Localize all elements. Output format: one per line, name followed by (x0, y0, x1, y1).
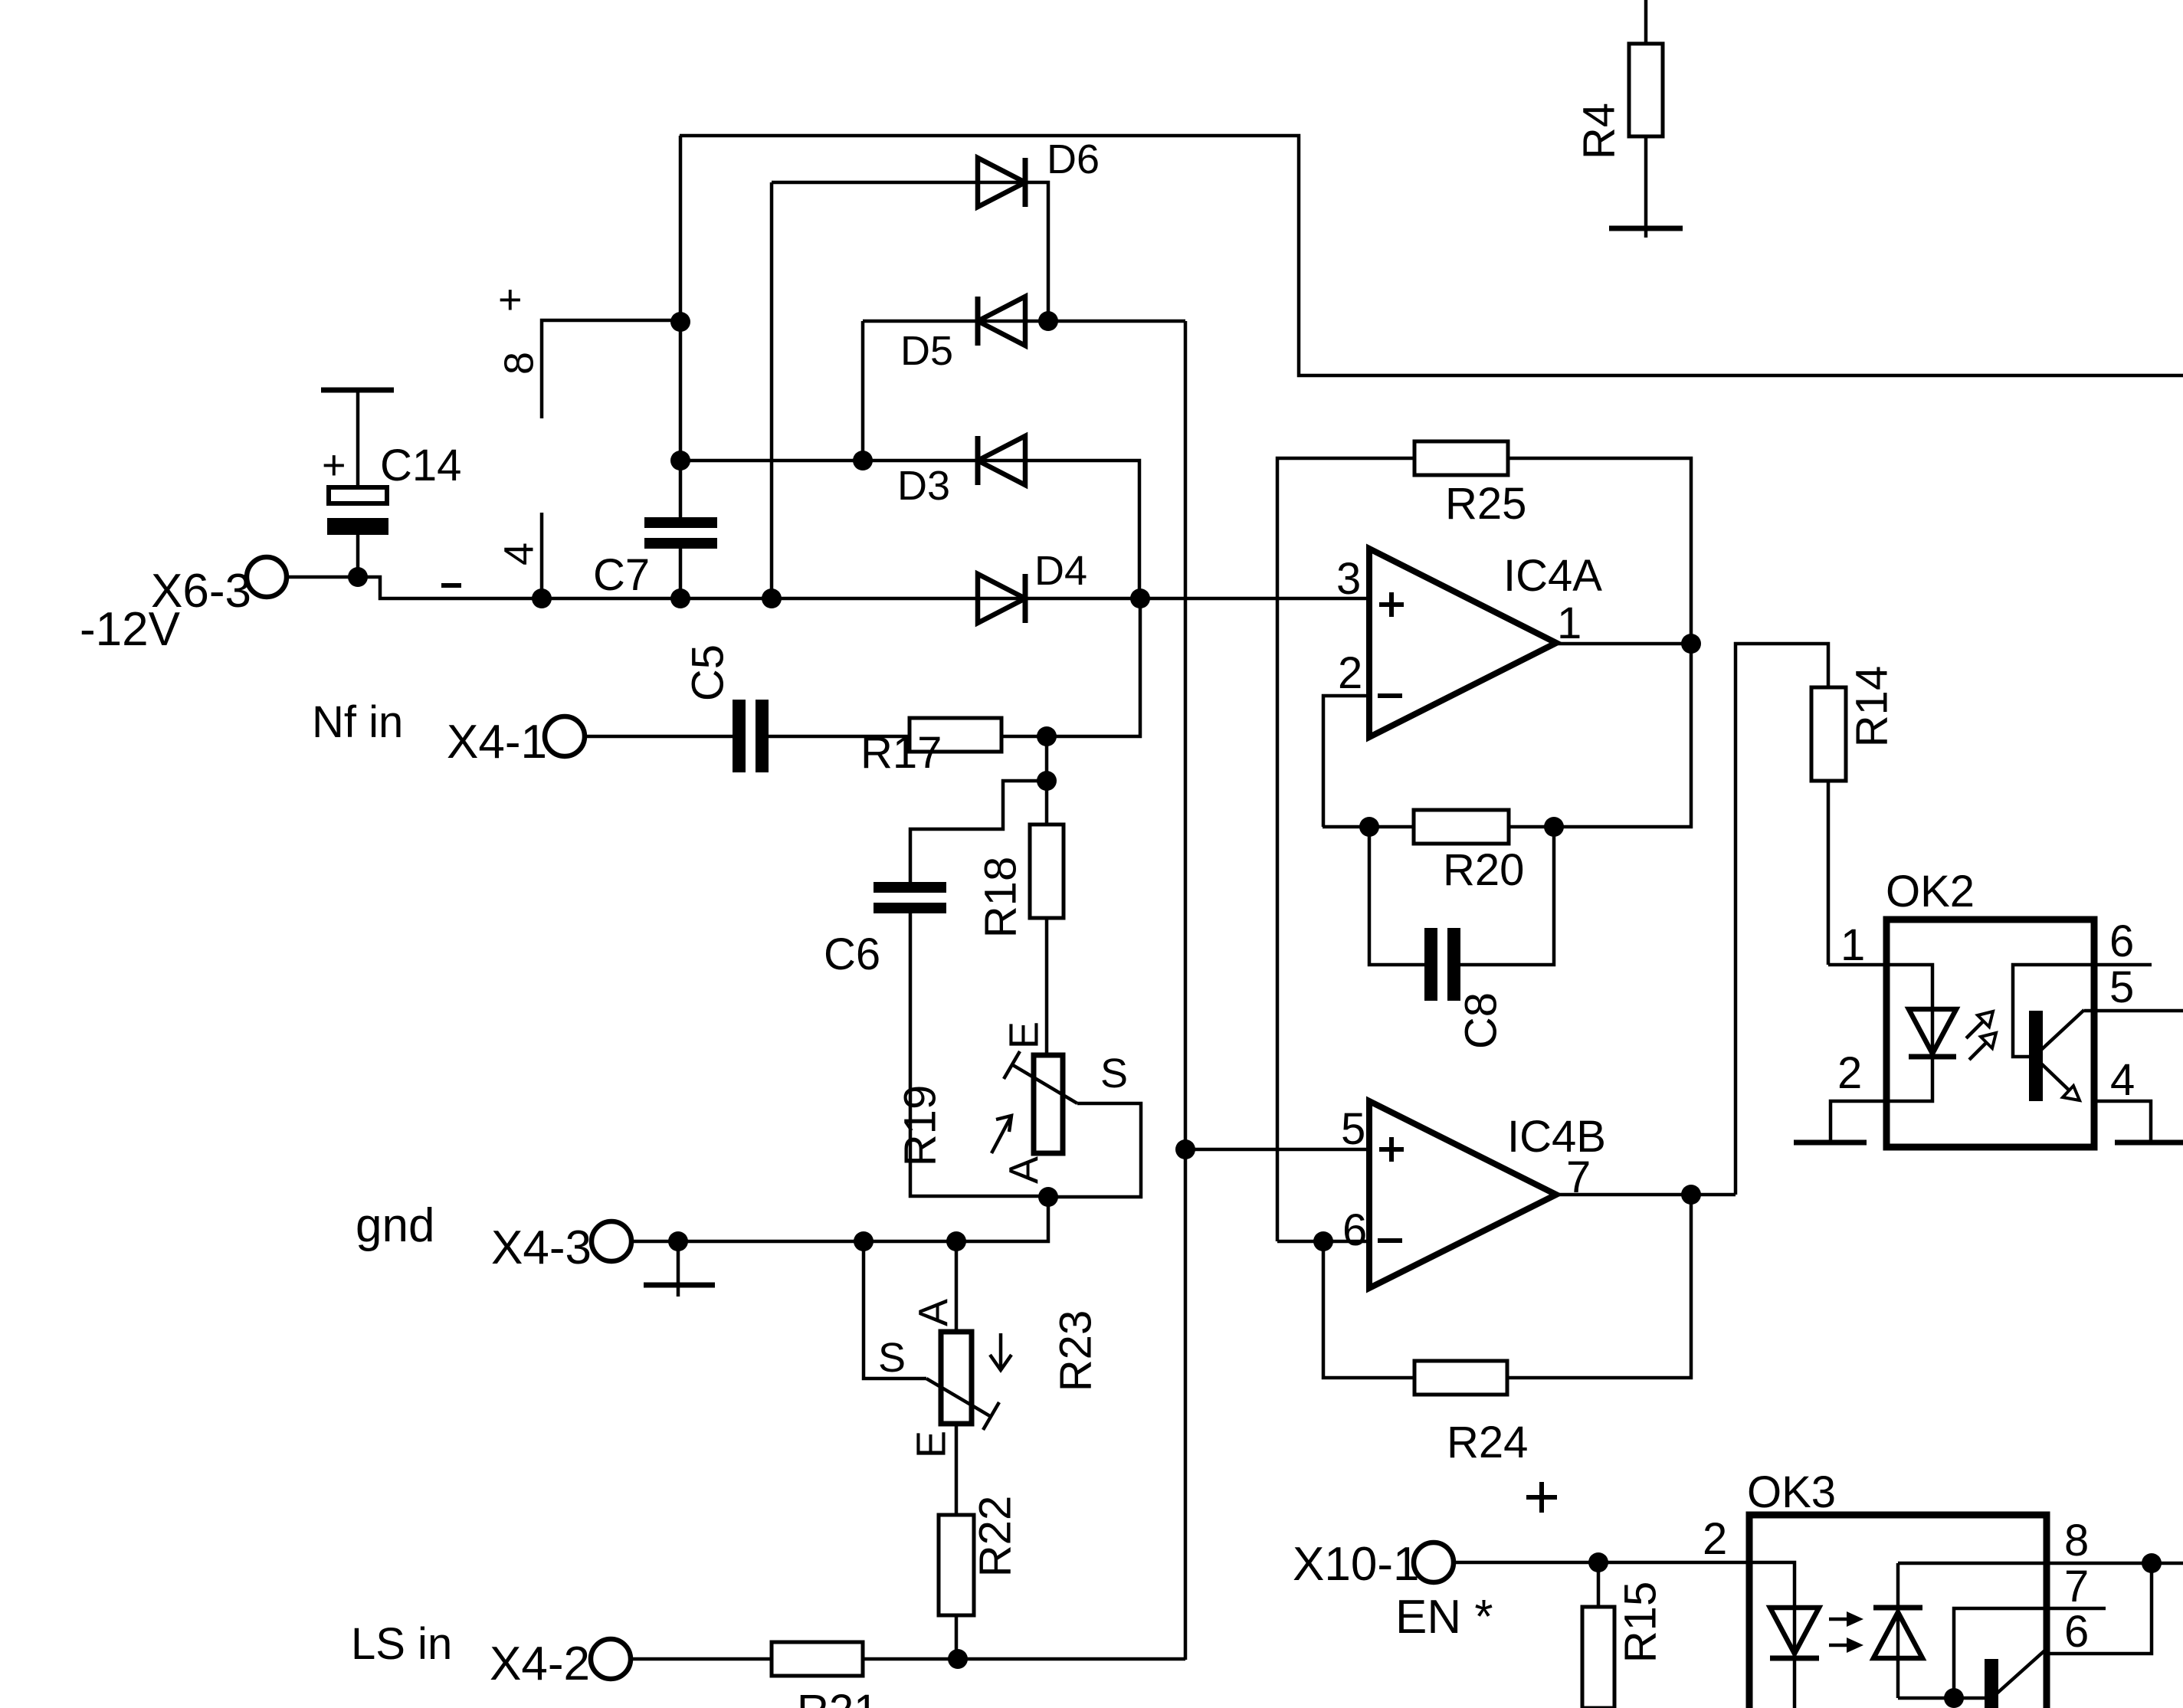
wire OK3 base row (1898, 1697, 1986, 1700)
svg-text:1: 1 (1840, 920, 1865, 970)
node junction D6/D5 (1038, 311, 1058, 331)
terminal X4-1 (545, 716, 585, 756)
node junction pot A / R19 / S / rail (1038, 1187, 1058, 1207)
wire IC4B output (1556, 1193, 1736, 1197)
diode D5 (975, 297, 981, 346)
resistor R24 (1414, 1361, 1507, 1395)
svg-text:R17: R17 (860, 728, 942, 778)
wire IC4A out down to R20 row (1323, 644, 1691, 827)
svg-text:-12V: -12V (80, 603, 181, 656)
wire S loop of upper pot (1048, 1103, 1141, 1197)
node junction R22/R21 (948, 1649, 968, 1669)
resistor R25 (1277, 458, 1414, 1241)
wire IC4A pin2 stub (1323, 696, 1369, 827)
svg-text:2: 2 (1837, 1048, 1862, 1098)
svg-text:8: 8 (2064, 1516, 2089, 1565)
svg-text:D4: D4 (1034, 548, 1087, 594)
svg-text:5: 5 (1341, 1104, 1365, 1154)
svg-text:E: E (1001, 1021, 1047, 1049)
wire OK2 pin5 (2084, 1009, 2183, 1013)
potentiometer R23 body (941, 1332, 972, 1424)
OK2 base wire from pin6 (2013, 965, 2094, 1057)
wire OK2 pin2 stub (1831, 1101, 1886, 1140)
svg-text:C8: C8 (1456, 992, 1506, 1049)
wire S loop of R23 (864, 1241, 926, 1379)
svg-text:C7: C7 (593, 550, 650, 600)
arrow direction marker upper pot (992, 1116, 1011, 1153)
svg-text:D6: D6 (1047, 136, 1100, 182)
svg-text:Nf in: Nf in (312, 697, 403, 747)
node junction S drop R23 (854, 1231, 874, 1251)
capacitor C14 electrolytic (356, 390, 360, 487)
svg-text:LS in: LS in (351, 1619, 452, 1669)
OK3 light arrows (1829, 1618, 1854, 1621)
svg-text:6: 6 (2064, 1607, 2089, 1657)
wire C6 loop from junction (910, 781, 1047, 882)
optocoupler OK3 box (1749, 1515, 2047, 1708)
capacitor C6 (874, 882, 946, 893)
resistor R15 (1597, 1562, 1601, 1607)
minus sign IC4A (1378, 693, 1402, 698)
svg-text:R23: R23 (1051, 1310, 1100, 1392)
svg-text:IC4A: IC4A (1503, 551, 1602, 601)
node junction D5 leg on D3 row (853, 451, 873, 470)
wire pot junction down to gnd rail corner (611, 1197, 1048, 1241)
svg-text:X4-1: X4-1 (447, 716, 547, 769)
svg-text:C6: C6 (824, 929, 880, 979)
svg-text:A: A (1001, 1156, 1047, 1184)
potentiometer R23 wiper diagonal (926, 1379, 990, 1416)
svg-text:+: + (498, 277, 523, 323)
wire OK3 pin6 to pin8 (2047, 1563, 2152, 1654)
wire top rail from C7 top to right corner (680, 136, 2183, 375)
node junction IC4B output (1681, 1185, 1701, 1205)
op-amp IC4B (1369, 1101, 1556, 1288)
resistor R22 (939, 1515, 974, 1615)
resistor R21 (631, 1657, 772, 1661)
node junction pin4 bracket on rail (532, 588, 552, 608)
terminal X10-1 (1414, 1542, 1454, 1582)
plus sign X10 (1526, 1495, 1557, 1500)
resistor R17 (769, 735, 910, 739)
svg-text:2: 2 (1703, 1514, 1727, 1564)
svg-text:A: A (910, 1299, 956, 1326)
svg-text:R25: R25 (1445, 479, 1526, 529)
capacitor C8 (1424, 928, 1437, 1001)
svg-text:C5: C5 (683, 644, 733, 701)
svg-text:8: 8 (496, 352, 542, 375)
wire IC4 power bracket plus pin8 (542, 320, 680, 418)
resistor R18 (1045, 781, 1049, 824)
svg-text:3: 3 (1336, 554, 1361, 604)
ground R4 (1609, 226, 1683, 231)
OK3 phototransistor base bar (1985, 1659, 1998, 1708)
wire IC4B pin6 row (1277, 1240, 1369, 1244)
node junction gnd symbol (668, 1231, 688, 1251)
node junction bracket top on C7 line (670, 312, 690, 332)
wire C8 loop right (1460, 827, 1554, 965)
diode D4 (978, 574, 1025, 623)
diode D3 (680, 459, 1025, 463)
wire R24 loop left (1323, 1241, 1414, 1378)
wire C7 vertical upper (679, 136, 683, 517)
svg-text:D3: D3 (897, 463, 950, 509)
terminal X4-3 (592, 1221, 631, 1261)
svg-text:R20: R20 (1443, 845, 1524, 895)
svg-text:6: 6 (2109, 916, 2134, 966)
potentiometer upper (E/S/A) body (1034, 1055, 1063, 1153)
capacitor C7 (644, 517, 717, 528)
svg-text:2: 2 (1338, 648, 1362, 698)
svg-text:S: S (1100, 1051, 1128, 1097)
wire D5 long drop to LS row (1184, 321, 1188, 1660)
svg-text:R24: R24 (1447, 1418, 1528, 1467)
arrow direction marker R23 (999, 1333, 1003, 1370)
wire OK2 pin6 stub (2094, 963, 2152, 967)
node junction R20 left (1359, 817, 1379, 837)
resistor R20 (1414, 810, 1509, 844)
svg-text:5: 5 (2109, 962, 2134, 1012)
OK2 light arrows (1966, 1017, 1988, 1038)
node junction R18 top (1037, 771, 1057, 791)
svg-text:X4-2: X4-2 (490, 1638, 590, 1690)
op-amp IC4A (1369, 549, 1556, 737)
node junction IC4A output (1681, 634, 1701, 654)
svg-text:R4: R4 (1574, 103, 1624, 159)
node junction pin6 (1313, 1231, 1333, 1251)
wire OK3 pin8 row (1898, 1562, 2183, 1565)
svg-text:IC4B: IC4B (1507, 1112, 1606, 1162)
wire R19 drop from C6 to pot junction (910, 913, 1048, 1196)
wire D4 junction down to R17 row (1047, 598, 1140, 736)
svg-text:gnd: gnd (356, 1199, 434, 1252)
node junction R15 top (1588, 1552, 1608, 1572)
node junction pin5 on D5 drop (1175, 1139, 1195, 1159)
wire IC4A output (1556, 642, 1691, 646)
potentiometer upper wiper diagonal (1013, 1065, 1077, 1103)
terminal X4-2 (591, 1639, 631, 1679)
node junction C7 on rail (670, 588, 690, 608)
svg-text:R22: R22 (970, 1496, 1020, 1577)
label minus near bracket (441, 583, 461, 588)
svg-text:OK3: OK3 (1747, 1467, 1836, 1517)
node junction X6-3/C14 (348, 567, 368, 587)
wire OK2 pin1 (1828, 963, 1886, 967)
svg-text:7: 7 (2064, 1562, 2089, 1611)
node junction pin8 (2142, 1553, 2162, 1573)
terminal X6-3 (247, 557, 287, 597)
node junction R17 output (1037, 726, 1057, 746)
diode D6 (772, 181, 1025, 185)
node junction D6 leg on rail (762, 588, 782, 608)
node junction OK3 base row (1944, 1688, 1964, 1708)
wire R23 E terminal to R22 (955, 1424, 959, 1515)
svg-text:D5: D5 (900, 328, 953, 374)
node junction D4 cathode (1130, 588, 1150, 608)
minus sign IC4B (1378, 1238, 1402, 1243)
svg-text:S: S (878, 1335, 906, 1381)
OK2 emitter diagonal with arrow (2041, 1064, 2078, 1099)
resistor R4 (1644, 0, 1648, 44)
svg-text:E: E (908, 1431, 954, 1458)
resistor R14 (1811, 687, 1846, 781)
svg-text:6: 6 (1342, 1205, 1367, 1255)
svg-text:C14: C14 (380, 441, 461, 490)
wire output up to R14 (1736, 644, 1828, 1195)
wire OK3 pin7 (1954, 1608, 2106, 1698)
OK3 LED chain (1749, 1562, 1795, 1658)
svg-text:R19: R19 (895, 1085, 945, 1166)
node junction R20 right (1544, 817, 1564, 837)
svg-text:1: 1 (1557, 598, 1582, 648)
svg-text:EN *: EN * (1395, 1591, 1493, 1644)
wire R17 junction to lower junction (1045, 736, 1049, 781)
capacitor C5 (585, 735, 733, 739)
wire X10-1 to OK3 pin2 (1454, 1561, 1749, 1565)
plus sign IC4B (1379, 1147, 1404, 1152)
svg-text:R18: R18 (975, 857, 1025, 938)
wire -12V rail from X6-3 step to IC4A pin3 (286, 577, 1369, 598)
OK3 reverse diode (1896, 1563, 1900, 1698)
ground symbol X4-3 (677, 1241, 680, 1297)
svg-text:4: 4 (496, 543, 542, 566)
OK2 collector diagonal (2041, 1010, 2084, 1050)
svg-text:R21: R21 (797, 1686, 878, 1708)
svg-text:4: 4 (2110, 1055, 2135, 1105)
svg-text:R14: R14 (1847, 666, 1896, 747)
wire R23 A terminal (955, 1241, 959, 1332)
node junction R23 A (946, 1231, 966, 1251)
plus sign IC4A (1379, 602, 1404, 607)
svg-text:R15: R15 (1615, 1582, 1665, 1663)
wire D6 anode drop to rail (770, 182, 774, 598)
OK2 phototransistor base bar (2029, 1011, 2043, 1101)
OK2 LED chain (1886, 965, 1932, 1057)
wire IC4 power bracket pin4 (540, 513, 544, 598)
wire C8 loop left (1369, 827, 1424, 965)
optocoupler OK2 box (1886, 920, 2094, 1147)
OK3 collector diagonal (1997, 1647, 2048, 1693)
svg-text:X4-3: X4-3 (491, 1221, 592, 1274)
svg-text:X10-1: X10-1 (1293, 1538, 1419, 1591)
wire OK2 pin4 with ground (2094, 1101, 2151, 1140)
wire IC4B pin5 row (1185, 1148, 1369, 1152)
svg-text:+: + (322, 442, 346, 488)
svg-text:OK2: OK2 (1886, 867, 1975, 916)
wire D5 left leg down to D3 row (861, 321, 865, 461)
node junction C7 on D3 row (670, 451, 690, 470)
ground bar above C14 (321, 388, 394, 393)
